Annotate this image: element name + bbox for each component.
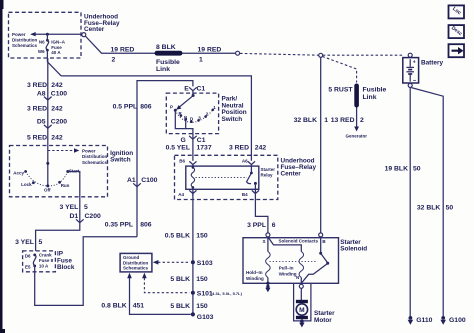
wire 32 BLK 1 from junction to solenoid B [320, 57, 322, 233]
svg-text:Accy: Accy [13, 170, 24, 175]
ground G110 [408, 316, 433, 325]
label 32 BLK 50 [417, 205, 454, 212]
nav button LOC [449, 5, 465, 18]
label Starter Relay [261, 167, 276, 177]
terminal S [262, 233, 269, 244]
park/neutral position switch box [166, 93, 218, 134]
wire battery to G110 [409, 87, 411, 316]
svg-text:1: 1 [324, 117, 328, 124]
svg-text:3 YEL: 3 YEL [15, 239, 34, 246]
svg-text:8 BLK: 8 BLK [156, 44, 176, 51]
svg-text:C200: C200 [85, 213, 101, 220]
svg-text:19 RED: 19 RED [111, 47, 135, 54]
svg-text:Schematics: Schematics [12, 43, 38, 48]
crank fuse [25, 253, 54, 270]
svg-text:40 A: 40 A [51, 50, 61, 55]
solenoid contact [302, 237, 330, 283]
ignition switch interior [13, 145, 107, 192]
svg-text:IGN–A: IGN–A [51, 39, 66, 44]
connector E C1 [184, 86, 205, 93]
svg-text:0.5 YEL: 0.5 YEL [166, 145, 190, 152]
connector G C1 [181, 136, 206, 144]
label Starter Solenoid [340, 239, 367, 253]
hold-in winding [246, 237, 270, 285]
svg-text:D6: D6 [25, 254, 31, 259]
svg-text:Ground: Ground [123, 255, 139, 260]
svg-text:50: 50 [446, 205, 454, 212]
svg-text:W6: W6 [38, 49, 45, 54]
label 19 RED 2 [111, 47, 135, 64]
fusible link 5 RUST [354, 84, 359, 108]
svg-text:3 RED: 3 RED [27, 82, 47, 89]
label 3 RED 242 (relay) [229, 145, 266, 152]
starter solenoid box [243, 238, 339, 284]
svg-text:A4: A4 [178, 192, 184, 197]
label 0.5 PPL 806 [113, 103, 152, 110]
connector circle [236, 51, 240, 55]
svg-text:150: 150 [196, 276, 208, 283]
svg-text:N: N [296, 275, 299, 280]
label Park/Neutral Position Switch [222, 96, 247, 123]
svg-text:2: 2 [360, 117, 364, 124]
label 5 RED 242 [27, 134, 63, 141]
label 0.5 YEL 1737 [166, 145, 212, 152]
label Underhood Fuse-Relay Center (top) [84, 14, 120, 34]
svg-text:Crank: Crank [39, 253, 52, 258]
wire B4 to solenoid S [255, 189, 268, 233]
svg-text:1737: 1737 [197, 145, 212, 152]
svg-text:1: 1 [199, 56, 203, 63]
svg-text:N6: N6 [39, 39, 45, 44]
page left border bar [0, 0, 3, 333]
svg-text:Fuse: Fuse [51, 45, 62, 50]
svg-text:5: 5 [84, 204, 88, 211]
terminal circle at box edge [82, 33, 86, 37]
svg-text:(4.3L, 5.0L, 5.7L): (4.3L, 5.0L, 5.7L) [211, 291, 243, 296]
label IP Fuse Block [57, 251, 75, 271]
dashed reference S101 to box [142, 273, 189, 293]
svg-text:G: G [181, 137, 186, 144]
svg-text:Schematics: Schematics [123, 266, 149, 271]
svg-text:3 RED: 3 RED [229, 145, 249, 152]
svg-text:5 BLK: 5 BLK [170, 303, 190, 310]
svg-text:D1: D1 [70, 213, 79, 220]
svg-text:M: M [299, 307, 305, 314]
svg-text:3 YEL: 3 YEL [60, 204, 79, 211]
svg-text:G110: G110 [416, 317, 432, 324]
svg-text:Hold–In: Hold–In [246, 270, 263, 275]
motor bracket wires [294, 283, 311, 321]
wire N to motor [300, 288, 302, 300]
svg-text:Link: Link [156, 66, 170, 73]
wire 0.8 BLK to G103 [127, 273, 191, 315]
arrow to generator [346, 108, 368, 139]
motor ground [299, 319, 304, 327]
svg-text:Motor: Motor [314, 317, 332, 324]
label 3 PPL 6 [247, 222, 276, 229]
svg-text:150: 150 [196, 303, 208, 310]
connector A1 C100 [127, 177, 158, 187]
svg-text:Distribution: Distribution [82, 154, 107, 159]
dashed reference S103 to box [153, 260, 190, 265]
svg-text:C1: C1 [197, 86, 206, 93]
wire from fuse box to bus [85, 36, 155, 53]
pull-in winding [268, 237, 304, 283]
label Underhood Fuse-Relay Center [281, 157, 317, 177]
svg-text:0.8 BLK: 0.8 BLK [101, 302, 126, 309]
starter relay box [186, 166, 259, 189]
svg-text:2: 2 [112, 56, 116, 63]
label 5 BLK 150 (lower) [170, 303, 208, 310]
svg-text:5 RED: 5 RED [27, 134, 47, 141]
wire G C1 to relay [192, 133, 194, 160]
svg-text:451: 451 [133, 302, 145, 309]
svg-text:E5: E5 [25, 264, 31, 269]
terminal B6 [179, 159, 196, 165]
connector A8 C100 [37, 90, 67, 100]
svg-text:A6: A6 [242, 159, 248, 164]
svg-text:S103: S103 [197, 260, 213, 267]
node on feed line [46, 33, 49, 36]
label 0.8 BLK 451 [101, 302, 144, 309]
svg-text:Off: Off [44, 188, 51, 193]
svg-text:19 RED: 19 RED [198, 47, 222, 54]
svg-text:242: 242 [51, 134, 63, 141]
svg-text:C100: C100 [51, 90, 67, 97]
svg-text:13 RED: 13 RED [331, 117, 355, 124]
windings to contact dashed link [270, 261, 318, 263]
svg-text:Generator: Generator [346, 133, 368, 138]
svg-text:Link: Link [363, 94, 377, 101]
svg-text:Power: Power [12, 32, 26, 37]
svg-text:Distribution: Distribution [123, 260, 148, 265]
svg-text:Solenoid Contacts: Solenoid Contacts [279, 239, 319, 244]
connector D5 C200 [37, 119, 67, 129]
underhood fuse-relay center box 2 [175, 155, 278, 199]
underhood fuse-relay center box (top-left) [9, 12, 82, 58]
svg-text:C1: C1 [197, 137, 206, 144]
svg-text:Winding: Winding [246, 276, 264, 281]
terminal B [319, 233, 327, 244]
svg-text:0.5 BLK: 0.5 BLK [165, 232, 190, 239]
park/neutral switch interior [170, 91, 216, 134]
svg-text:242: 242 [51, 82, 63, 89]
connector D1 C200 [70, 213, 101, 223]
svg-text:Run: Run [61, 183, 70, 188]
relay contact dashed link [196, 177, 248, 179]
svg-text:Center: Center [281, 170, 302, 177]
wire A4 to grounds [192, 194, 194, 314]
svg-text:Lock: Lock [21, 182, 32, 187]
solenoid case ground [265, 285, 270, 292]
svg-text:B4: B4 [242, 192, 248, 197]
svg-text:5 BLK: 5 BLK [170, 276, 190, 283]
svg-text:Power: Power [82, 149, 96, 154]
terminal N [296, 275, 303, 288]
nav button DESC [449, 25, 465, 38]
start output wire [36, 172, 80, 251]
IP fuse block box [23, 251, 56, 272]
splice S101 [191, 290, 243, 297]
ground distribution schematics box [120, 253, 152, 272]
svg-text:6: 6 [272, 222, 276, 229]
wire 19 RED 1 [183, 52, 236, 54]
ignition switch box [10, 146, 108, 197]
dashed wire to battery [240, 53, 319, 55]
svg-text:5 RUST: 5 RUST [328, 87, 353, 94]
battery [403, 53, 419, 87]
svg-text:242: 242 [255, 145, 267, 152]
svg-text:5: 5 [39, 239, 43, 246]
starter motor [296, 300, 308, 319]
label 3 RED 242 [27, 105, 63, 112]
label 3 RED 242 [27, 82, 63, 89]
terminal B4 [242, 190, 259, 197]
main feed wire down left [47, 58, 49, 145]
svg-text:150: 150 [196, 232, 208, 239]
crank fuse output detour wire [35, 237, 137, 306]
svg-text:32 BLK: 32 BLK [294, 117, 318, 124]
svg-text:C200: C200 [51, 119, 67, 126]
svg-text:C100: C100 [141, 177, 157, 184]
svg-text:Block: Block [57, 264, 75, 271]
svg-text:Center: Center [84, 26, 105, 33]
svg-text:S: S [262, 239, 265, 244]
svg-text:G100: G100 [449, 317, 466, 324]
svg-text:32 BLK: 32 BLK [417, 205, 441, 212]
relay coil [191, 165, 194, 190]
svg-text:Winding: Winding [279, 271, 297, 276]
relay contact [247, 165, 257, 190]
label 13 RED 2 [331, 117, 364, 124]
power distribution schematics reference (in fuse box) [12, 32, 82, 48]
fusible link (8 BLK) [155, 51, 183, 56]
svg-text:N: N [184, 115, 187, 120]
svg-text:P: P [170, 105, 173, 110]
svg-text:0.5 PPL: 0.5 PPL [113, 103, 138, 110]
ground G103 [191, 312, 214, 321]
svg-text:A1: A1 [127, 177, 136, 184]
svg-text:Switch: Switch [222, 116, 243, 123]
svg-text:B6: B6 [179, 159, 185, 164]
bus to starter relay A6 [61, 76, 251, 161]
svg-text:Pull–In: Pull–In [279, 266, 294, 271]
label Starter Motor [314, 310, 335, 324]
svg-text:Switch: Switch [110, 157, 131, 164]
branch to bus [48, 62, 61, 76]
ppl bus [137, 81, 193, 237]
svg-text:E: E [184, 86, 189, 93]
svg-text:Fuse 8: Fuse 8 [39, 258, 54, 263]
wire battery branch to G100 [411, 88, 443, 316]
label Ignition Switch [110, 150, 133, 164]
svg-text:19 BLK: 19 BLK [385, 165, 409, 172]
label 19 BLK 50 [385, 165, 421, 172]
svg-text:3 PPL: 3 PPL [247, 222, 266, 229]
svg-text:Solenoid: Solenoid [340, 246, 367, 253]
dashed branch to fusible link F2 [322, 56, 356, 82]
svg-text:806: 806 [140, 222, 152, 229]
svg-text:242: 242 [51, 105, 63, 112]
svg-text:Relay: Relay [261, 172, 274, 177]
svg-text:3 RED: 3 RED [27, 105, 47, 112]
nav button arrow [449, 44, 465, 57]
label 0.5 BLK 150 [165, 232, 208, 239]
svg-text:0.35 PPL: 0.35 PPL [105, 222, 133, 229]
ground G100 [440, 316, 465, 325]
label 3 YEL 5 [60, 204, 88, 211]
label 5 BLK 150 [170, 276, 208, 283]
junction node circle [319, 53, 323, 57]
svg-text:+: + [413, 59, 416, 65]
splice S103 [191, 260, 213, 267]
terminal A4 [178, 189, 196, 197]
svg-text:Fusible: Fusible [363, 87, 387, 94]
svg-text:Battery: Battery [421, 59, 443, 66]
svg-text:10 A: 10 A [39, 263, 49, 268]
svg-text:Schematics: Schematics [82, 160, 108, 165]
svg-text:G103: G103 [197, 314, 214, 321]
fuse IGN-A 40A [38, 34, 66, 62]
svg-text:Distribution: Distribution [12, 38, 37, 43]
svg-text:Starter: Starter [261, 167, 276, 172]
terminal A6 [242, 159, 255, 165]
svg-text:50: 50 [413, 165, 421, 172]
label 0.35 PPL 806 [105, 222, 152, 229]
svg-text:806: 806 [140, 103, 152, 110]
label 3 YEL 5 (lower) [15, 239, 42, 246]
